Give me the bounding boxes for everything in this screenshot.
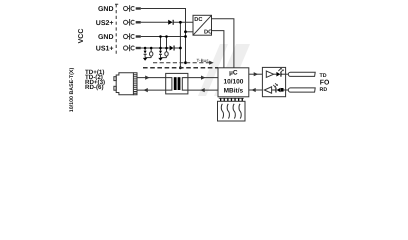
svg-text:US2+: US2+ [96, 20, 114, 27]
fiber connector RD [288, 88, 315, 92]
wire row4 US1+ to diode [141, 47, 170, 49]
receiver buffer triangle (RX) [264, 87, 271, 93]
wire suppressor pair B bottom join [161, 55, 167, 58]
wire DC/DC bottom output to uC [212, 31, 224, 68]
arrow right (RJ45 to transformer) [145, 76, 149, 80]
arrow right (uC to optical) [254, 72, 258, 76]
fiber connector TD [288, 72, 315, 76]
photodiode D4 [272, 83, 286, 92]
wire optical to RD connector [286, 89, 289, 91]
svg-text:TD: TD [320, 73, 327, 79]
svg-text:GND: GND [98, 34, 114, 41]
wire row2 diode to DC/DC input [174, 21, 193, 23]
suppressor SB2 gas discharge tube [165, 52, 168, 58]
DC/DC converter U1 [193, 15, 212, 35]
T-Bus power dashed line [143, 67, 218, 69]
diode D2 (US1+) [170, 46, 175, 51]
ground arrow (pair B) [158, 58, 162, 61]
svg-text:VCC: VCC [78, 29, 85, 44]
microcontroller U2 [218, 68, 249, 97]
terminal clamp row4 US1+ [124, 45, 141, 52]
svg-text:DC: DC [204, 30, 212, 36]
wire row4 diode to +V rail [174, 47, 180, 49]
wire +V rail vertical [179, 22, 181, 68]
T-Bus connector teeth [219, 97, 244, 99]
wire uC to transformer (bottom) [188, 89, 218, 91]
svg-text:RD: RD [320, 87, 328, 93]
transformer T1 [166, 73, 188, 94]
wire row1 GND to corner [141, 9, 186, 63]
svg-text:FO: FO [320, 79, 330, 86]
svg-text:µC: µC [229, 70, 238, 77]
optical interface box U3 [262, 67, 285, 96]
svg-text:T-Bus: T-Bus [197, 58, 210, 63]
wire optical to TD connector [286, 73, 289, 75]
wire suppressor pair A bottom join [145, 57, 151, 59]
driver buffer triangle (TX) [266, 71, 273, 77]
terminal clamp row1 GND [124, 5, 141, 12]
T-Bus dashed arrow [153, 61, 214, 65]
arrow left (optical to uC) [251, 88, 255, 92]
suppressor SA2 gas discharge tube (US1+) [150, 48, 153, 58]
terminal clamp row2 US2+ [124, 19, 141, 26]
wire row3 GND to vertical [141, 36, 186, 38]
wire DC/DC top output to uC [212, 19, 234, 68]
svg-text:MBit/s: MBit/s [224, 87, 244, 94]
arrow right (transformer to uC) [201, 76, 205, 80]
arrow left (transformer to RJ45) [143, 88, 147, 92]
suppressor SB1 (diode to ground at GND row) [159, 51, 162, 55]
wire suppressor pair B drop from GND row [161, 37, 167, 52]
svg-text:10/100: 10/100 [223, 78, 243, 85]
svg-text:RD-(6): RD-(6) [85, 84, 104, 91]
LED transmitter D3 [274, 68, 286, 77]
svg-text:10/100 BASE-T(X): 10/100 BASE-T(X) [69, 68, 75, 113]
device boundary dashed line (power side) [115, 4, 121, 54]
wire uC to optical box (top) [249, 73, 263, 75]
T-Bus connector body [218, 101, 246, 121]
wire row2 US2+ to diode [141, 21, 168, 23]
arrow left (uC to transformer) [200, 88, 204, 92]
wire transformer to uC (top) [188, 77, 218, 79]
ground arrow (pair A) [143, 58, 147, 61]
diode D1 (US2+) [168, 20, 174, 25]
wire GND stub to DC/DC input [186, 31, 194, 33]
wire transformer to RJ45 (RX down) [137, 89, 166, 91]
wire RJ45 to transformer (TX up) [137, 77, 166, 79]
suppressor SA1 (diode to ground at US1+) [144, 48, 147, 58]
svg-text:US1+: US1+ [96, 46, 114, 53]
terminal clamp row3 GND [124, 33, 141, 40]
svg-text:GND: GND [98, 6, 114, 13]
RJ45 jack J1 [114, 73, 137, 95]
T-Bus connector pins [221, 104, 241, 119]
svg-text:DC: DC [194, 17, 202, 23]
junction dots (power rails) [144, 21, 187, 69]
wire optical box to uC (bottom) [249, 89, 263, 91]
watermark [198, 44, 250, 96]
